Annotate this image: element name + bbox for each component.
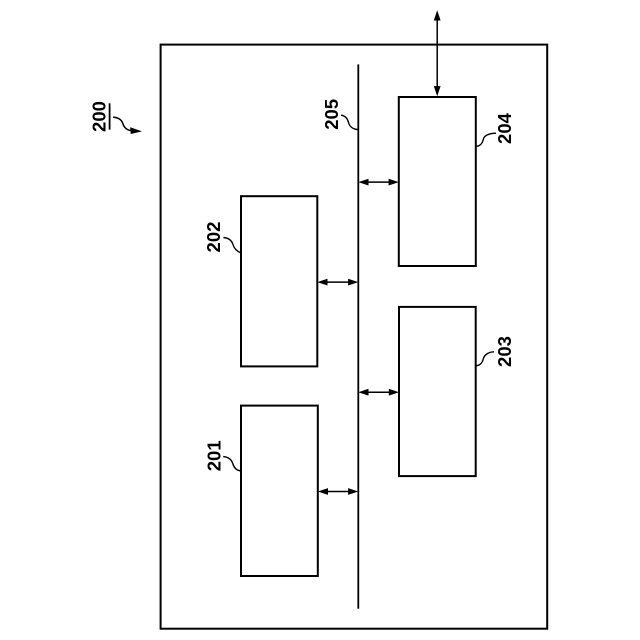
wire: external bidirectional arrow above 204 [434, 10, 441, 96]
leader squiggle 202 [223, 238, 241, 253]
wire: bidirectional arrow bus to 203 [358, 389, 399, 396]
wire: bidirectional arrow 202 to bus [317, 279, 358, 286]
leader squiggle 204 [476, 133, 496, 146]
svg-text:202: 202 [203, 222, 224, 253]
block 202 [241, 196, 317, 366]
wire: bidirectional arrow bus to 204 [358, 179, 399, 186]
svg-text:200: 200 [89, 101, 110, 132]
wire: bidirectional arrow 201 to bus [318, 488, 359, 495]
block 203 [399, 307, 476, 476]
leader squiggle 201 [223, 457, 241, 471]
leader squiggle 203 [476, 352, 494, 366]
bus 205 wire [357, 64, 359, 608]
label 200 [89, 101, 110, 132]
svg-text:204: 204 [494, 112, 515, 144]
leader squiggle 205 to bus [341, 115, 358, 129]
outer box (apparatus 200) [161, 45, 548, 629]
svg-text:201: 201 [203, 440, 224, 471]
block 201 [241, 406, 318, 576]
leader arrow from 200 to box [113, 117, 141, 134]
block 204 [399, 97, 476, 266]
svg-text:205: 205 [321, 99, 342, 130]
svg-text:203: 203 [494, 336, 515, 367]
